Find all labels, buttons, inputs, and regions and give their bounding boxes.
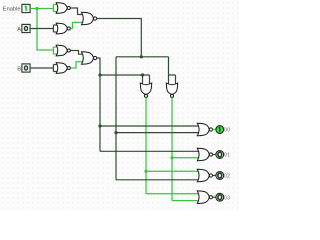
svg-text:00: 00: [224, 128, 230, 134]
wire U5 output net (EA) top run: [97, 19, 142, 57]
node S1 bracket junction: [141, 73, 144, 76]
NOR gate U1 (NOT Enable): [56, 3, 70, 14]
NOR gate U4 (NOT B): [56, 63, 70, 74]
output pin O0: [216, 126, 224, 134]
NOR gate O2: [197, 169, 212, 182]
wire S1 to O2 top input: [146, 170, 200, 172]
wire U6 output net (EB): [97, 58, 100, 151]
svg-text:A: A: [17, 27, 21, 33]
NOR gate S2 (NOT EA, south): [166, 83, 177, 97]
wire EB feed S1 rail: [100, 74, 143, 76]
NOR gate U3 (NOT Enable lower): [56, 45, 70, 56]
wire O0 output: [213, 129, 217, 131]
NOR gate O0: [197, 123, 212, 136]
wire S1 to O3 top input: [146, 193, 200, 195]
wire S2 output vertical bus: [171, 98, 173, 201]
wire O2 output: [213, 175, 217, 177]
NOR gate U2 (NOT A): [56, 23, 70, 34]
node EB to O0: [98, 124, 101, 127]
input pin Enable: [22, 4, 30, 12]
output pin O2: [216, 172, 224, 180]
wire S1 input bracket: [143, 75, 150, 86]
wire gate2 input bracket: [53, 25, 58, 32]
svg-text:01: 01: [224, 153, 230, 159]
svg-text:Enable: Enable: [3, 6, 21, 12]
wire U1 output to U5: [70, 8, 83, 15]
wire U4 output to U6: [70, 62, 83, 68]
NOR gate O3: [197, 191, 212, 204]
wire EA to O0 bottom input: [116, 132, 200, 134]
wire gate3 input bracket: [53, 47, 58, 54]
wire S2 to O3 bottom input: [172, 200, 200, 202]
NOR gate S1 (NOT EB, south): [140, 83, 151, 97]
wire EA vertical bus x116: [115, 57, 117, 180]
node S1 to O2: [144, 170, 147, 173]
wire S2 to O1 bottom input: [172, 157, 200, 159]
wire Enable vertical drop: [37, 9, 53, 51]
wire gate4 input bracket: [53, 65, 58, 72]
wire A horizontal: [31, 28, 54, 30]
wire B horizontal: [31, 67, 54, 69]
svg-text:03: 03: [224, 195, 230, 201]
wire S2 input bracket: [169, 75, 176, 86]
wire O3 output: [213, 196, 217, 198]
wire EB to O0 top input: [100, 125, 200, 127]
wire EA feed S2: [168, 57, 170, 75]
NOR gate U5 (E AND A): [82, 12, 97, 25]
wire O1 output: [213, 154, 217, 156]
wire EA to O2 bottom input: [116, 179, 200, 181]
node S2 to O1: [170, 156, 173, 159]
input pin B: [22, 64, 30, 72]
svg-text:02: 02: [224, 174, 230, 180]
svg-text:B: B: [17, 66, 21, 72]
wire EA horizontal distribution: [116, 56, 169, 58]
node EA to O0: [114, 131, 117, 134]
wire S1 output vertical bus: [145, 98, 147, 194]
NOR gate O1: [197, 148, 212, 161]
output pin O3: [216, 193, 224, 201]
wire U3 output to U6: [70, 51, 83, 55]
node Enable junction: [35, 7, 38, 10]
node EA junction: [140, 55, 143, 58]
wire Enable horizontal: [31, 8, 54, 10]
wire EB to O1 top input: [100, 150, 200, 152]
node EB junction y75: [98, 73, 101, 76]
output pin O1: [216, 151, 224, 159]
wire gate1 input bracket: [53, 5, 58, 12]
wire U2 output to U5: [70, 22, 83, 28]
input pin A: [22, 24, 30, 32]
NOR gate U6 (E AND B): [82, 52, 97, 65]
